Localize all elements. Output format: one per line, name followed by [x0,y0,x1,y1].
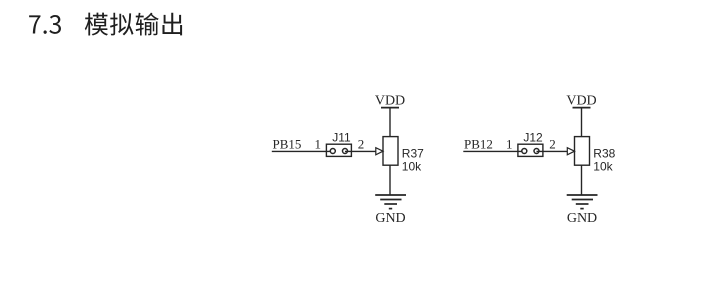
ground symbol (PB15 circuit) [375,195,406,209]
wire VDD to R37 top [389,108,391,137]
jumper J11 pin 1 circle [330,149,335,154]
wire J12 pin 2 to R38 wiper [537,150,568,152]
svg-text:1: 1 [315,136,322,151]
VDD power bar [381,107,399,109]
potentiometer R38 wiper arrow [567,148,574,155]
jumper J12 pin 2 circle [534,149,539,154]
svg-text:VDD: VDD [375,94,405,109]
svg-text:R37: R37 [402,147,424,161]
svg-text:R38: R38 [593,147,615,161]
svg-text:PB15: PB15 [273,136,302,151]
jumper J12 body [518,144,543,156]
wire J11 pin 2 to R37 wiper [345,150,376,152]
svg-text:1: 1 [506,136,513,151]
svg-text:GND: GND [567,211,597,226]
svg-text:GND: GND [375,211,405,226]
wire R37 bottom to ground [389,165,391,195]
svg-text:2: 2 [549,136,556,151]
svg-text:J12: J12 [523,130,543,144]
jumper J11 body [326,144,351,156]
ground symbol (PB12 circuit) [567,195,598,209]
wire PB15 to J11 pin 1 [272,150,333,152]
wire PB12 to J12 pin 1 [463,150,524,152]
svg-text:PB12: PB12 [464,136,493,151]
svg-text:J11: J11 [332,130,351,144]
svg-text:2: 2 [358,136,365,151]
jumper J11 pin 2 circle [343,149,348,154]
VDD power bar [573,107,591,109]
potentiometer R37 body [383,137,398,166]
svg-text:VDD: VDD [566,94,596,109]
potentiometer R37 wiper arrow [376,148,383,155]
jumper J12 pin 1 circle [522,149,527,154]
svg-text:10k: 10k [593,160,613,174]
wire VDD to R38 top [581,108,583,137]
svg-text:10k: 10k [402,160,422,174]
section title 7.3 模拟输出 [29,13,182,36]
wire R38 bottom to ground [581,165,583,195]
potentiometer R38 body [575,137,590,166]
